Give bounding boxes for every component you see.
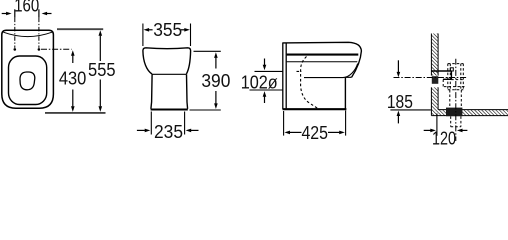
dim 430 top arrow: [71, 50, 75, 63]
pedestal bottom edge: [151, 109, 188, 111]
bottom edge view 3: [283, 108, 347, 110]
svg-text:185: 185: [387, 91, 413, 112]
dim 120 left arrow: [424, 129, 436, 133]
vertical outlet pipe (hidden, dashed): [443, 64, 464, 108]
svg-text:160: 160: [14, 0, 39, 15]
dim 425 right extension line: [345, 111, 347, 136]
dim 425 left arrow: [284, 131, 301, 135]
dim 430 bottom arrow: [71, 90, 75, 112]
seat joint thin line: [287, 61, 358, 63]
seat-hole centerline right (dash-dot): [38, 18, 40, 48]
dim 235 right extension line: [184, 112, 186, 135]
svg-text:430: 430: [59, 67, 87, 88]
svg-text:355: 355: [153, 19, 182, 40]
horizontal outlet centerline (dash-dot): [394, 77, 467, 79]
outlet spigot top line: [255, 70, 283, 72]
pipe below floor (hidden, dashed): [451, 116, 461, 126]
dim 355 right extension line: [190, 24, 192, 47]
dim 355 right arrow: [181, 28, 190, 32]
pedestal front edge: [344, 77, 346, 108]
seat fixing hole left: [14, 48, 17, 51]
pipe hole through floor (solid): [446, 108, 462, 117]
water area blob: [20, 72, 35, 90]
dim 425 right arrow: [328, 131, 345, 135]
dim 120 right arrow: [457, 129, 468, 133]
ground line view 1: [45, 112, 106, 114]
dim 102 top arrow: [263, 59, 267, 71]
dim 555 bottom arrow: [99, 80, 103, 112]
pedestal left side: [151, 74, 152, 109]
front ledge: [345, 76, 351, 78]
outlet spigot bottom line: [250, 89, 283, 91]
pedestal right side: [187, 74, 188, 109]
vertical centerline of pipe (dash-dot): [455, 59, 457, 141]
dim 390 bottom extension line: [190, 109, 221, 111]
dim 235 left arrow: [137, 129, 150, 133]
bowl outline view 2: [143, 48, 191, 74]
svg-text:425: 425: [301, 122, 328, 143]
dim 390 bottom arrow: [214, 91, 218, 109]
stub top nub: [450, 68, 453, 71]
dash-dot level line at 430: [41, 48, 72, 50]
dim 185 bottom arrow: [397, 111, 401, 124]
svg-text:235: 235: [154, 121, 183, 142]
pan opening (inner rounded rect): [9, 56, 47, 105]
dim 160 right arrow: [39, 9, 52, 17]
bowl/pedestal joint line: [152, 73, 187, 75]
dim 555 top arrow: [99, 30, 103, 61]
interior shelf line: [304, 64, 358, 78]
dim 390 top extension line: [194, 50, 221, 52]
svg-text:120: 120: [432, 128, 456, 148]
svg-text:390: 390: [201, 70, 230, 91]
dim 235 left extension line: [150, 112, 152, 135]
svg-text:102ø: 102ø: [241, 72, 278, 93]
svg-text:555: 555: [88, 59, 116, 80]
rim top and front nose: [283, 42, 362, 77]
dim 102 bottom arrow: [263, 91, 267, 103]
dim 355 left extension line: [142, 24, 144, 47]
wall section lower (hatched): [431, 87, 438, 115]
dim 160 left arrow: [2, 9, 15, 17]
555 top extension line: [57, 28, 103, 30]
seat-hole centerline left (dash-dot): [14, 18, 16, 48]
wall section upper (hatched): [431, 34, 438, 76]
floor slab (hatched): [431, 110, 508, 116]
pan outer outline (front view): [2, 30, 54, 108]
dim 425 left extension line: [283, 111, 285, 136]
dim 120 left extension line: [436, 114, 438, 136]
dim 235 right arrow: [186, 129, 199, 133]
trapway hidden outline (dashed): [297, 57, 319, 109]
dim 390 top arrow: [214, 52, 218, 68]
outlet hole through wall (solid): [432, 76, 439, 84]
back edge inner line: [285, 43, 287, 110]
rim lower thick line: [287, 54, 359, 56]
seat fixing hole right: [38, 48, 41, 51]
pan rim inner arc: [3, 32, 52, 36]
dim 185 bottom extension line: [390, 109, 431, 111]
horizontal outlet stub: [432, 71, 452, 79]
back edge outer line: [282, 43, 284, 110]
dim 355 left arrow: [144, 28, 153, 32]
dim 185 top arrow: [397, 60, 401, 77]
